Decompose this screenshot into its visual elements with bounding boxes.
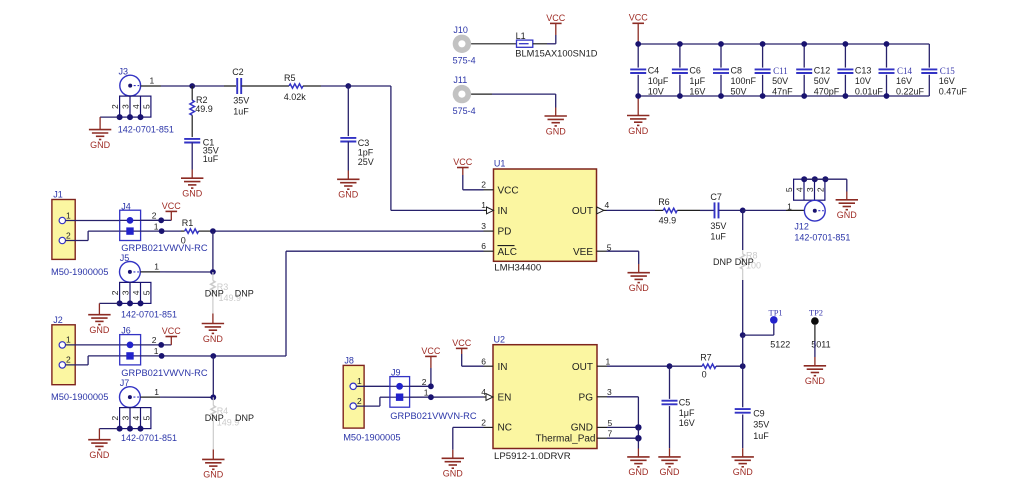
capacitor C14 <box>879 44 925 96</box>
wire C1 to ground <box>191 143 193 179</box>
svg-text:C14: C14 <box>897 66 913 76</box>
wire U1 VEE to ground <box>597 251 639 273</box>
svg-text:J1: J1 <box>53 190 63 200</box>
wire J2 pin1 to J6 <box>66 344 120 346</box>
svg-text:GND: GND <box>805 376 826 386</box>
power VCC (J9) <box>421 346 441 357</box>
resistor R7 <box>702 364 743 368</box>
svg-text:1: 1 <box>154 346 159 356</box>
ground (C9) <box>732 457 754 477</box>
svg-text:50V: 50V <box>731 86 747 96</box>
svg-text:GND: GND <box>571 423 593 434</box>
ground (J5) <box>88 315 110 335</box>
svg-text:5: 5 <box>608 418 613 428</box>
wire J3 pins to ground <box>100 117 120 130</box>
junction TP1 node <box>740 332 746 338</box>
svg-text:2: 2 <box>816 187 826 192</box>
svg-text:5011: 5011 <box>811 340 830 350</box>
svg-text:10V: 10V <box>855 76 871 86</box>
svg-text:0: 0 <box>181 236 186 246</box>
ground (R3) <box>202 324 224 344</box>
svg-text:35V: 35V <box>233 95 249 105</box>
ferrite bead L1 <box>517 40 533 47</box>
ground (U2 NC) <box>442 458 464 478</box>
svg-text:GND: GND <box>660 467 681 477</box>
wire C5 to ground <box>669 448 671 457</box>
svg-text:49.9: 49.9 <box>195 104 213 114</box>
wire PD node down to J5 net <box>212 231 214 272</box>
svg-text:DNP: DNP <box>235 288 254 298</box>
connector J7 (BNC) <box>110 387 151 429</box>
svg-text:NC: NC <box>498 423 512 434</box>
power VCC (U2 IN) <box>452 338 472 354</box>
junction output node <box>740 208 746 214</box>
ground (J12) <box>836 200 858 220</box>
junction rail at C8 <box>718 41 724 99</box>
svg-text:3: 3 <box>121 104 131 109</box>
svg-text:J7: J7 <box>120 378 130 388</box>
svg-text:BLM15AX100SN1D: BLM15AX100SN1D <box>515 49 597 59</box>
input arrow U2 EN <box>486 394 493 401</box>
svg-text:M50-1900005: M50-1900005 <box>51 392 108 402</box>
svg-text:OUT: OUT <box>572 206 593 217</box>
wire TP2 to ground <box>814 325 816 366</box>
svg-text:EN: EN <box>498 392 512 403</box>
svg-text:3: 3 <box>607 387 612 397</box>
svg-text:4: 4 <box>131 415 141 420</box>
junction rail at C4 <box>635 41 641 99</box>
svg-text:50V: 50V <box>772 76 788 86</box>
svg-text:DNP: DNP <box>235 413 254 423</box>
svg-text:25V: 25V <box>358 157 374 167</box>
svg-text:2: 2 <box>152 335 157 345</box>
connector J5 (BNC) <box>110 262 151 304</box>
svg-text:R5: R5 <box>284 73 296 83</box>
svg-text:VEE: VEE <box>573 247 593 258</box>
ground (C5) <box>658 457 680 477</box>
wire U2 GND pin <box>597 426 638 428</box>
svg-text:U1: U1 <box>494 158 506 168</box>
capacitor C2 <box>237 78 241 94</box>
wire U2 OUT to node <box>597 365 670 367</box>
output arrow U1 OUT <box>597 207 607 214</box>
svg-text:C15: C15 <box>940 66 956 76</box>
power VCC (L1) <box>546 13 566 24</box>
capacitor C8 <box>713 44 757 96</box>
wire J6 pin1 to ALC net <box>141 355 214 357</box>
junction J6 pin2 <box>158 342 164 348</box>
svg-text:4: 4 <box>795 187 805 192</box>
wire R4 to ground <box>212 450 214 460</box>
svg-text:142-0701-851: 142-0701-851 <box>121 309 177 319</box>
wire C2 to R5 <box>241 85 289 87</box>
wire node to R7 <box>670 365 703 367</box>
connector J3 (BNC) <box>110 75 151 117</box>
svg-text:LP5912-1.0DRVR: LP5912-1.0DRVR <box>494 451 571 462</box>
wire J1 pin1 to J4 <box>66 220 120 222</box>
junction J5 node <box>210 269 216 275</box>
wire R8 to TP node <box>742 280 744 335</box>
wire J7 pin1 to node <box>140 396 213 398</box>
resistor R5 <box>289 84 303 88</box>
svg-text:Thermal_Pad: Thermal_Pad <box>535 434 595 445</box>
capacitor C12 <box>796 44 840 96</box>
svg-text:VCC: VCC <box>162 201 182 211</box>
connector J7 ground pin dots <box>117 426 144 432</box>
wire J12 pins to ground <box>804 179 847 200</box>
svg-text:VCC: VCC <box>498 185 519 196</box>
ground (C3) <box>337 179 359 199</box>
svg-text:TP2: TP2 <box>809 308 823 318</box>
svg-text:VCC: VCC <box>546 13 566 23</box>
svg-text:1: 1 <box>787 201 792 211</box>
svg-text:5122: 5122 <box>770 340 790 350</box>
wire VCC to U2 IN <box>462 354 493 366</box>
svg-text:1: 1 <box>154 387 159 397</box>
svg-text:C9: C9 <box>753 408 765 418</box>
wire J2 pin2 to J6 <box>66 356 120 365</box>
ground (J3) <box>89 130 111 150</box>
connector J12 (BNC) <box>784 179 825 221</box>
svg-text:0.22uF: 0.22uF <box>896 86 925 96</box>
svg-text:6: 6 <box>481 241 486 251</box>
svg-text:1: 1 <box>66 210 71 220</box>
svg-text:35V: 35V <box>710 221 726 231</box>
svg-text:DNP: DNP <box>713 257 732 267</box>
wire J7 pins to ground <box>99 429 119 440</box>
junction C5 node <box>667 363 673 369</box>
svg-text:J10: J10 <box>453 25 468 35</box>
svg-text:M50-1900005: M50-1900005 <box>343 433 400 443</box>
svg-text:2: 2 <box>66 230 71 240</box>
wire C7 to node <box>719 209 743 211</box>
wire U1 ALC <box>213 251 493 356</box>
svg-text:GND: GND <box>90 140 111 150</box>
resistor R1 <box>181 229 213 233</box>
svg-text:ALC: ALC <box>498 247 517 258</box>
wire J9 pin2 to VCC <box>410 356 431 386</box>
svg-text:R7: R7 <box>700 352 712 362</box>
svg-text:4.02k: 4.02k <box>284 92 307 102</box>
svg-text:U2: U2 <box>494 335 506 345</box>
svg-text:10μF: 10μF <box>648 76 669 86</box>
svg-text:4: 4 <box>131 290 141 295</box>
svg-text:GND: GND <box>203 470 224 480</box>
svg-text:IN: IN <box>498 362 508 373</box>
svg-text:1: 1 <box>606 356 611 366</box>
resistor R6 <box>655 208 700 212</box>
svg-text:5: 5 <box>142 290 152 295</box>
svg-text:DNP: DNP <box>205 413 224 423</box>
label DNP DNP (R8) <box>713 257 754 267</box>
capacitor C13 <box>837 44 883 96</box>
capacitor C15 <box>921 44 967 96</box>
wire output node down <box>742 210 744 250</box>
wire rail to ground <box>637 96 639 116</box>
svg-text:142-0701-851: 142-0701-851 <box>118 124 174 134</box>
svg-text:GND: GND <box>89 325 110 335</box>
svg-text:IN: IN <box>498 206 508 217</box>
resistor R4 (DNP ghost) <box>211 397 216 449</box>
svg-text:C5: C5 <box>679 398 691 408</box>
wire J8 pin1 to J9 <box>356 385 390 387</box>
junction J9 pin2 <box>428 383 434 389</box>
junction ALC node <box>210 353 216 359</box>
svg-text:47nF: 47nF <box>772 86 793 96</box>
svg-text:1: 1 <box>66 335 71 345</box>
junction node at R2 <box>189 83 195 89</box>
svg-text:35V: 35V <box>753 420 769 430</box>
junction J4 pin1 <box>159 228 165 234</box>
junction J6 pin1 <box>159 353 165 359</box>
wire J9 pin1 to U2 EN <box>410 396 487 398</box>
svg-text:3: 3 <box>481 221 486 231</box>
wire R3 to ground <box>212 314 214 324</box>
test point TP1 <box>770 316 778 324</box>
wire J10 to L1 <box>471 43 516 45</box>
svg-text:R6: R6 <box>658 197 670 207</box>
svg-text:2: 2 <box>152 211 157 221</box>
svg-text:OUT: OUT <box>572 362 593 373</box>
connector J2 <box>52 325 75 385</box>
wire U1 OUT to R6 <box>607 209 656 211</box>
wire J4 pin2 to VCC <box>141 211 172 220</box>
svg-text:575-4: 575-4 <box>453 55 476 65</box>
power VCC (J6) <box>162 326 182 337</box>
junction J4 pin2 <box>158 217 164 223</box>
svg-text:1: 1 <box>154 262 159 272</box>
svg-text:GRPB021VWVN-RC: GRPB021VWVN-RC <box>390 411 477 421</box>
capacitor C7 <box>715 202 719 218</box>
connector J5 ground pin dots <box>117 300 144 306</box>
wire J1 pin2 to J4 <box>66 231 120 240</box>
svg-text:J6: J6 <box>121 326 131 336</box>
svg-text:VCC: VCC <box>162 326 182 336</box>
svg-text:J12: J12 <box>794 222 809 232</box>
svg-text:GND: GND <box>443 469 464 479</box>
svg-text:1: 1 <box>154 221 159 231</box>
wire C9 to ground <box>742 448 744 457</box>
wire U2 NC to ground <box>453 427 493 458</box>
svg-text:GRPB021VWVN-RC: GRPB021VWVN-RC <box>121 368 208 378</box>
resistor R3 (DNP ghost) <box>211 272 216 314</box>
junction rail at C12 <box>801 41 807 99</box>
wire J6 pin2 to VCC <box>141 337 172 345</box>
svg-text:LMH34400: LMH34400 <box>494 262 541 273</box>
wire J8 pin2 to J9 <box>356 397 390 406</box>
op-amp U1 LMH34400 <box>494 169 597 261</box>
wire J5 pin1 to node <box>140 271 213 273</box>
svg-text:2: 2 <box>481 417 486 427</box>
svg-text:GND: GND <box>89 450 110 460</box>
wire R6 to C7 <box>700 209 715 211</box>
svg-text:L1: L1 <box>516 31 526 41</box>
ground (cap bank) <box>627 116 649 136</box>
wire VCC top rail <box>638 43 929 45</box>
power VCC (cap bank) <box>629 13 649 44</box>
svg-text:J8: J8 <box>344 356 354 366</box>
connector J9 <box>390 377 410 408</box>
svg-text:GND: GND <box>629 283 650 293</box>
wire node to C2 <box>192 85 236 87</box>
capacitor C1 <box>184 139 200 143</box>
connector J8 <box>343 365 364 428</box>
svg-text:142-0701-851: 142-0701-851 <box>121 433 177 443</box>
wire TP1 to node <box>743 324 774 335</box>
svg-text:J3: J3 <box>119 67 129 77</box>
wire VCC to U1 pin 2 <box>463 175 494 190</box>
resistor R8 (DNP ghost) <box>740 250 745 280</box>
svg-text:GND: GND <box>182 189 203 199</box>
svg-text:C2: C2 <box>232 67 244 77</box>
svg-text:J11: J11 <box>453 75 467 85</box>
svg-text:DNP: DNP <box>735 257 754 267</box>
svg-text:GND: GND <box>733 467 754 477</box>
svg-text:C7: C7 <box>710 192 722 202</box>
junction U2 GND <box>635 424 641 430</box>
svg-text:GND: GND <box>546 126 567 136</box>
wire U2 PG <box>597 397 638 428</box>
wire J3 pin1 to node <box>141 85 193 87</box>
capacitor C6 <box>672 44 706 96</box>
svg-text:DNP: DNP <box>205 288 224 298</box>
power VCC (U1) <box>453 157 473 175</box>
junction J7 node <box>210 394 216 400</box>
svg-text:16V: 16V <box>896 76 912 86</box>
regulator U2 LP5912 <box>493 345 597 449</box>
wire U1 PD <box>213 230 494 232</box>
connector J12 ground pin dots <box>801 176 828 182</box>
svg-text:2: 2 <box>422 377 427 387</box>
svg-text:1μF: 1μF <box>689 76 705 86</box>
junction rail at C6 <box>677 41 683 99</box>
power VCC (J4) <box>162 201 182 212</box>
svg-text:3: 3 <box>121 290 131 295</box>
svg-text:TP1: TP1 <box>769 308 783 318</box>
ground (J11) <box>545 116 567 136</box>
label DNP DNP (R4) <box>205 413 254 423</box>
ground (TP2) <box>804 366 826 386</box>
svg-text:5: 5 <box>784 187 794 192</box>
wire U2 GND to ground <box>637 438 639 457</box>
svg-text:C11: C11 <box>773 66 788 76</box>
svg-text:1: 1 <box>424 387 429 397</box>
junction PD node <box>210 228 216 234</box>
svg-text:1uF: 1uF <box>203 154 219 164</box>
svg-text:GND: GND <box>837 210 858 220</box>
wire U2 Thermal_Pad <box>597 427 638 438</box>
wire L1 to VCC <box>533 23 556 43</box>
svg-text:VCC: VCC <box>453 157 473 167</box>
wire ALC node down to J7 net <box>212 356 214 397</box>
test point TP2 <box>811 317 819 325</box>
wire node to J12 <box>743 209 805 211</box>
svg-text:C13: C13 <box>855 66 872 76</box>
svg-text:16V: 16V <box>679 418 695 428</box>
svg-text:2: 2 <box>357 396 362 406</box>
svg-text:0.01uF: 0.01uF <box>855 86 884 96</box>
svg-text:2: 2 <box>66 355 71 365</box>
svg-text:7: 7 <box>608 429 613 439</box>
svg-text:PD: PD <box>498 226 512 237</box>
connector J1 <box>52 200 75 260</box>
svg-text:575-4: 575-4 <box>453 106 476 116</box>
ground (U1 VEE) <box>628 273 650 293</box>
pin name ALC with overline (U1) <box>498 246 517 258</box>
svg-text:49.9: 49.9 <box>659 215 677 225</box>
ground (R4) <box>202 459 224 479</box>
connector J4 <box>120 210 141 240</box>
junction U2 Thermal_Pad <box>635 435 641 441</box>
input arrow U1 IN <box>487 207 494 214</box>
wire node to U1 IN <box>348 86 486 210</box>
svg-text:1uF: 1uF <box>233 106 249 116</box>
svg-text:50V: 50V <box>814 76 830 86</box>
terminal J10 <box>453 35 471 53</box>
svg-text:R1: R1 <box>182 218 194 228</box>
svg-text:1μF: 1μF <box>679 408 695 418</box>
svg-text:142-0701-851: 142-0701-851 <box>794 232 850 242</box>
capacitor C11 <box>755 44 794 96</box>
junction node at C3 <box>345 83 351 89</box>
junction rail at C11 <box>760 41 766 99</box>
wire bottom rail <box>638 95 929 97</box>
svg-text:GND: GND <box>628 126 649 136</box>
label DNP DNP (R3) <box>205 288 254 298</box>
connector J6 <box>120 335 141 365</box>
junction rail at C13 <box>843 41 849 99</box>
svg-text:5: 5 <box>142 415 152 420</box>
resistor R2 <box>190 86 195 137</box>
svg-text:J4: J4 <box>121 201 131 211</box>
svg-text:PG: PG <box>579 392 594 403</box>
svg-text:1: 1 <box>481 200 486 210</box>
capacitor C3 <box>340 86 356 142</box>
ground (U2 GND) <box>627 457 649 477</box>
wire C3 to ground <box>347 142 349 180</box>
terminal J11 <box>453 85 471 103</box>
svg-text:100nF: 100nF <box>731 76 757 86</box>
svg-text:GND: GND <box>628 467 649 477</box>
svg-text:4: 4 <box>605 200 610 210</box>
svg-text:VCC: VCC <box>452 338 472 348</box>
svg-text:1uF: 1uF <box>710 232 726 242</box>
svg-text:0: 0 <box>702 370 707 380</box>
wire J5 pins to ground <box>99 303 119 314</box>
svg-text:16V: 16V <box>939 76 955 86</box>
svg-text:10V: 10V <box>648 86 664 96</box>
svg-text:6: 6 <box>481 356 486 366</box>
svg-text:2: 2 <box>110 415 120 420</box>
svg-text:2: 2 <box>110 290 120 295</box>
junction C9 node <box>740 363 746 369</box>
svg-text:3: 3 <box>121 415 131 420</box>
capacitor C5 <box>662 366 678 448</box>
svg-text:2: 2 <box>110 104 120 109</box>
svg-text:1uF: 1uF <box>753 431 769 441</box>
svg-text:2: 2 <box>481 180 486 190</box>
svg-text:3: 3 <box>805 187 815 192</box>
junction J9 pin1 <box>428 394 434 400</box>
junction rail at C14 <box>884 41 890 99</box>
svg-text:470pF: 470pF <box>814 86 840 96</box>
wire TP node to C9 node <box>742 335 744 366</box>
connector J3 ground pin dots <box>117 114 144 120</box>
svg-text:J5: J5 <box>120 253 130 263</box>
svg-text:GND: GND <box>338 190 359 200</box>
svg-text:C8: C8 <box>731 66 743 76</box>
svg-text:C6: C6 <box>689 66 701 76</box>
